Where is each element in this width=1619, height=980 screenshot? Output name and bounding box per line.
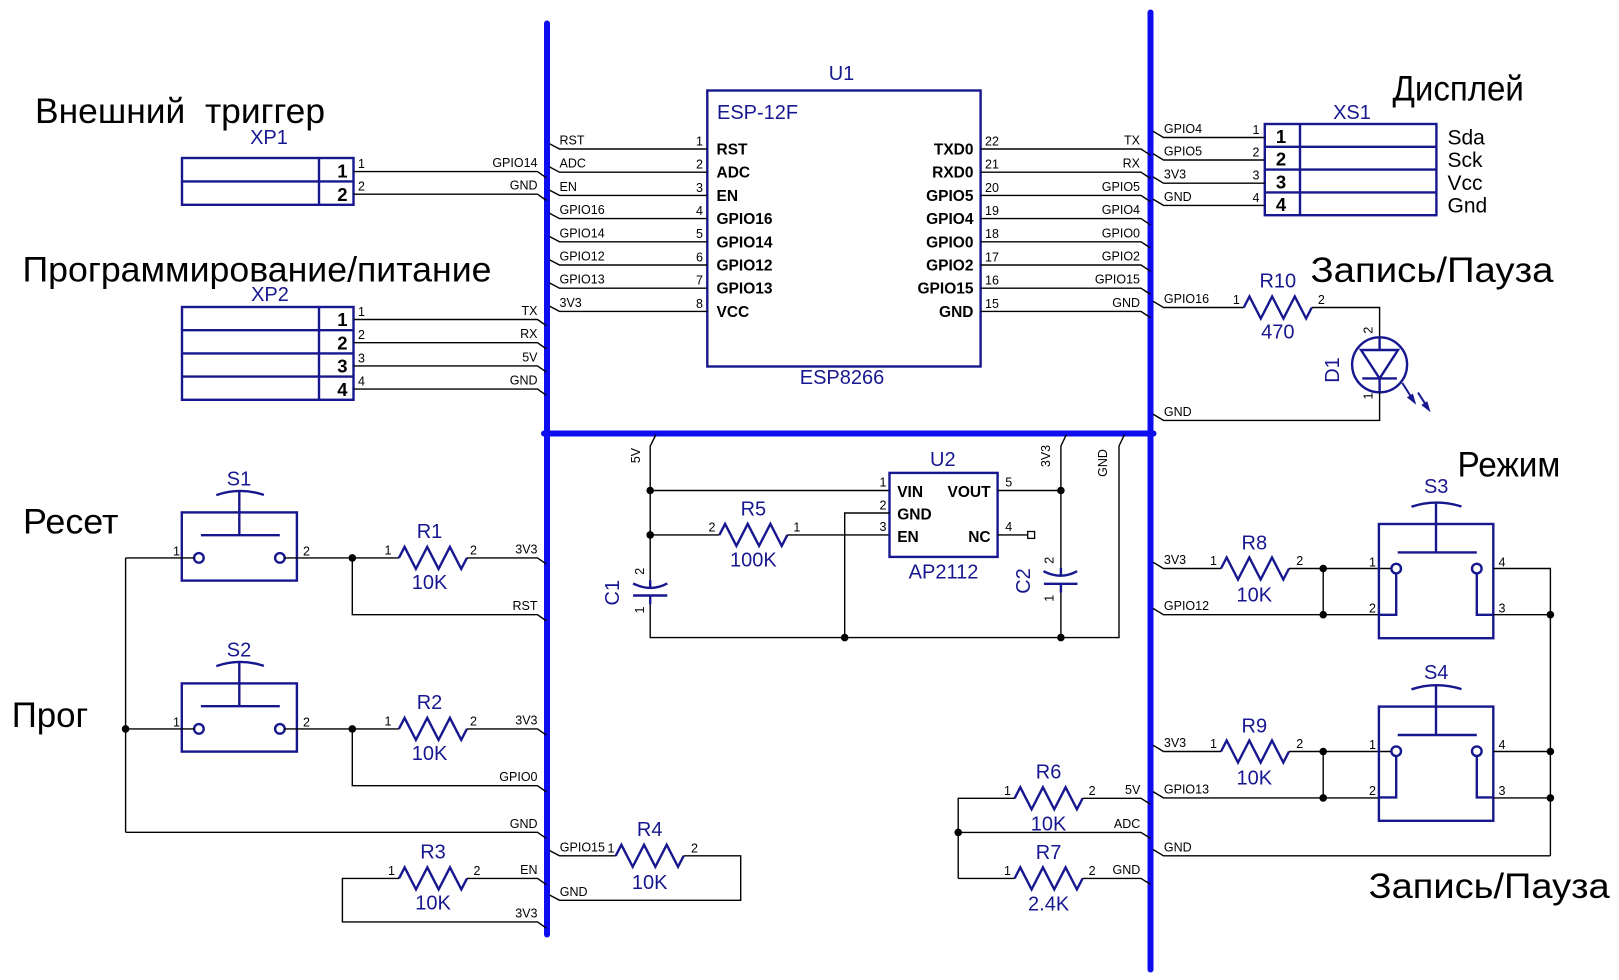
svg-text:S4: S4	[1424, 662, 1448, 684]
svg-text:10K: 10K	[632, 872, 668, 894]
svg-text:GPIO2: GPIO2	[1102, 250, 1140, 264]
wire C2 pin1 to bottom ground wire	[1060, 593, 1062, 639]
svg-text:GPIO4: GPIO4	[926, 211, 974, 228]
svg-text:4: 4	[337, 379, 348, 400]
svg-text:2: 2	[633, 568, 647, 575]
svg-text:7: 7	[696, 274, 703, 288]
svg-text:GPIO4: GPIO4	[1164, 122, 1202, 136]
svg-text:GPIO16: GPIO16	[560, 203, 605, 217]
svg-text:GPIO13: GPIO13	[1164, 782, 1209, 796]
svg-text:3V3: 3V3	[1164, 736, 1186, 750]
wire U1 pin 6 (GPIO12) from left bus, net GPIO12	[550, 250, 773, 275]
svg-text:GPIO15: GPIO15	[1095, 273, 1140, 287]
svg-text:2: 2	[696, 158, 703, 172]
svg-text:1: 1	[879, 475, 886, 489]
wire R3 pin2 to bus (net EN)	[467, 863, 547, 885]
svg-text:GND: GND	[1096, 449, 1110, 477]
wire S2 pin2 to R2	[284, 728, 399, 730]
svg-text:2: 2	[337, 184, 347, 205]
resistor R7 2.4K	[1004, 842, 1096, 915]
connector XP2	[182, 284, 354, 400]
svg-text:RST: RST	[717, 142, 749, 159]
wire XS1 pin4 from right bus, net GND (Gnd)	[1153, 190, 1487, 217]
svg-text:GPIO5: GPIO5	[1164, 145, 1202, 159]
svg-text:EN: EN	[520, 863, 537, 877]
svg-text:2: 2	[303, 716, 310, 730]
wire R7 pin2 to bus (net GND)	[1083, 863, 1151, 885]
svg-text:1: 1	[385, 714, 392, 728]
svg-text:GPIO16: GPIO16	[1164, 292, 1209, 306]
svg-text:ADC: ADC	[560, 157, 586, 171]
svg-text:TX: TX	[522, 304, 539, 318]
svg-text:GPIO14: GPIO14	[560, 226, 605, 240]
svg-text:2: 2	[1042, 557, 1056, 564]
svg-text:19: 19	[985, 204, 999, 218]
wire U1 pin 20 (GPIO5) to right bus, net GPIO5	[926, 180, 1150, 205]
svg-text:AP2112: AP2112	[909, 562, 979, 584]
svg-text:10K: 10K	[412, 572, 448, 594]
svg-text:1: 1	[1369, 555, 1376, 569]
svg-text:2.4K: 2.4K	[1028, 894, 1070, 916]
wire R7 pin1 stub	[958, 877, 1014, 879]
svg-text:GPIO2: GPIO2	[926, 258, 973, 275]
svg-text:Ресет: Ресет	[23, 502, 119, 541]
svg-text:2: 2	[1318, 293, 1325, 307]
svg-text:10K: 10K	[1237, 585, 1273, 607]
svg-text:VIN: VIN	[897, 484, 923, 501]
svg-text:EN: EN	[717, 188, 739, 205]
svg-text:4: 4	[1253, 191, 1260, 205]
wire R8 pin2 to S3 pin1	[1289, 568, 1392, 570]
wire XS1 pin2 from right bus, net GPIO5 (Sck)	[1153, 145, 1483, 172]
svg-text:EN: EN	[560, 180, 577, 194]
svg-text:3: 3	[1499, 602, 1506, 616]
node junction R9.2 rail top	[1319, 748, 1327, 756]
node junction rail/ADC	[954, 829, 962, 837]
node junction VOUT/3V3 rail	[1057, 487, 1065, 495]
wire U1 pin 16 (GPIO15) to right bus, net GPIO15	[918, 273, 1151, 298]
svg-text:3V3: 3V3	[1039, 445, 1053, 467]
svg-text:Прог: Прог	[12, 696, 89, 735]
svg-text:GPIO0: GPIO0	[499, 770, 537, 784]
wire GPIO13 from right bus to S4 pin2	[1153, 782, 1379, 798]
svg-text:XP2: XP2	[251, 284, 289, 306]
svg-text:5: 5	[696, 227, 703, 241]
wire GPIO0 from junction to bus	[352, 729, 546, 792]
svg-text:R8: R8	[1242, 533, 1268, 555]
svg-text:3V3: 3V3	[515, 906, 537, 920]
svg-text:Sda: Sda	[1448, 126, 1486, 149]
svg-text:GPIO15: GPIO15	[918, 281, 974, 298]
svg-text:GND: GND	[939, 304, 973, 321]
svg-text:D1: D1	[1322, 357, 1344, 383]
wire C1 pin1 down to bottom ground wire	[650, 446, 1119, 638]
svg-text:GND: GND	[1164, 190, 1192, 204]
svg-text:S2: S2	[227, 640, 251, 662]
wire GND rail entry from horizontal bus	[1096, 435, 1125, 477]
wire R5 row left stub	[650, 534, 719, 536]
node junction left rail / S2 pin1	[122, 725, 130, 733]
svg-text:1: 1	[1362, 392, 1376, 399]
svg-text:GND: GND	[897, 507, 931, 524]
svg-text:U2: U2	[930, 449, 956, 471]
svg-text:1: 1	[1042, 595, 1056, 602]
wire S3 pin3 to right rail	[1493, 614, 1550, 616]
svg-text:RST: RST	[560, 134, 585, 148]
resistor R6 10K	[1004, 761, 1096, 835]
svg-text:R5: R5	[741, 498, 767, 520]
svg-text:3: 3	[337, 356, 347, 377]
wire R10 pin2 to D1 anode	[1312, 308, 1380, 338]
svg-text:2: 2	[337, 332, 347, 353]
node junction U2 GND / bottom wire	[841, 634, 849, 642]
svg-text:R10: R10	[1259, 271, 1296, 293]
wire GND rail to bus	[126, 817, 547, 839]
svg-text:Запись/Пауза: Запись/Пауза	[1311, 251, 1555, 290]
wire R5 pin1 to U2 EN	[787, 534, 889, 536]
node junction GPIO12 rail bottom	[1319, 611, 1327, 619]
svg-text:10K: 10K	[1237, 768, 1273, 790]
svg-text:22: 22	[985, 134, 999, 148]
wire U1 pin 4 (GPIO16) from left bus, net GPIO16	[550, 203, 773, 228]
svg-text:470: 470	[1261, 322, 1294, 344]
svg-text:XP1: XP1	[250, 127, 288, 149]
svg-text:3: 3	[696, 181, 703, 195]
svg-text:GPIO5: GPIO5	[1102, 180, 1140, 194]
svg-text:C2: C2	[1013, 568, 1035, 594]
node junction S4 pin4 / rail	[1547, 748, 1555, 756]
svg-text:5V: 5V	[1125, 783, 1141, 797]
svg-text:1: 1	[337, 160, 347, 181]
svg-text:2: 2	[1296, 554, 1303, 568]
connector XS1 (display header)	[1265, 102, 1437, 215]
wire XP1 pin2 to bus (net GND)	[354, 179, 547, 201]
svg-text:GPIO14: GPIO14	[492, 156, 537, 170]
wire U1 pin 5 (GPIO14) from left bus, net GPIO14	[550, 226, 773, 251]
svg-text:4: 4	[1499, 555, 1506, 569]
svg-text:XS1: XS1	[1333, 102, 1371, 124]
wire U1 pin 3 (EN) from left bus, net EN	[550, 180, 739, 205]
svg-text:2: 2	[691, 841, 698, 855]
svg-text:3: 3	[1499, 784, 1506, 798]
svg-text:6: 6	[696, 250, 703, 264]
wire S1 pin1 stub	[126, 557, 195, 559]
svg-text:GND: GND	[1164, 840, 1192, 854]
svg-text:GPIO12: GPIO12	[560, 250, 605, 264]
resistor R9 10K	[1221, 716, 1303, 790]
wire vertical link R9.2 to GPIO13	[1322, 752, 1324, 798]
svg-text:2: 2	[358, 180, 365, 194]
node junction 5V/VIN	[646, 487, 654, 495]
svg-text:EN: EN	[897, 529, 919, 546]
svg-text:Vcc: Vcc	[1448, 172, 1483, 195]
svg-text:RX: RX	[520, 327, 538, 341]
svg-text:5V: 5V	[522, 350, 538, 364]
LED D1	[1322, 327, 1431, 413]
wire U1 pin 15 (GND) to right bus, net GND	[939, 296, 1150, 321]
wire R6 pin1 left rail	[958, 798, 1014, 878]
svg-text:3V3: 3V3	[1164, 553, 1186, 567]
svg-text:2: 2	[1369, 784, 1376, 798]
node junction R8.2 rail top	[1319, 565, 1327, 573]
wire R9 pin2 to S4 pin1	[1289, 751, 1392, 753]
svg-text:3V3: 3V3	[515, 542, 537, 556]
svg-text:21: 21	[985, 158, 999, 172]
wire XP1 pin1 to bus (net GPIO14)	[354, 156, 547, 178]
svg-text:1: 1	[1210, 554, 1217, 568]
svg-text:10K: 10K	[415, 892, 451, 914]
bus: right vertical power/signal bus	[1148, 13, 1154, 970]
svg-text:2: 2	[474, 864, 481, 878]
wire S1 pin2 to R1	[284, 557, 399, 559]
svg-text:3: 3	[358, 351, 365, 365]
svg-text:20: 20	[985, 181, 999, 195]
wire D1 cathode to bus (net GND)	[1153, 392, 1380, 420]
svg-text:1: 1	[1004, 864, 1011, 878]
svg-text:GPIO4: GPIO4	[1102, 203, 1140, 217]
svg-text:2: 2	[879, 498, 886, 512]
svg-text:2: 2	[708, 520, 715, 534]
svg-text:2: 2	[470, 543, 477, 557]
svg-text:R6: R6	[1036, 761, 1062, 783]
svg-text:1: 1	[358, 305, 365, 319]
wire R4 pin2 loop to GND	[550, 856, 741, 901]
svg-text:1: 1	[385, 543, 392, 557]
svg-text:R7: R7	[1036, 842, 1062, 864]
wire U1 pin 22 (TXD0) to right bus, net TX	[934, 134, 1151, 159]
svg-text:3V3: 3V3	[560, 296, 582, 310]
svg-text:R1: R1	[417, 521, 443, 543]
wire GPIO15 from left bus to R4	[550, 840, 616, 856]
wire 5V rail from horizontal bus	[629, 435, 656, 584]
wire XP2 pin2 to bus (net RX)	[354, 327, 547, 349]
svg-text:GND: GND	[510, 179, 538, 193]
wire VOUT to 3V3 rail	[998, 490, 1061, 492]
wire S4 pin4 stub to rail	[1493, 751, 1550, 753]
wire U1 pin 8 (VCC) from left bus, net 3V3	[550, 296, 750, 321]
svg-text:GPIO13: GPIO13	[717, 281, 773, 298]
wire XS1 pin1 from right bus, net GPIO4 (Sda)	[1153, 122, 1485, 149]
wire XP2 pin4 to bus (net GND)	[354, 374, 547, 396]
svg-text:U1: U1	[829, 63, 855, 85]
wire XP2 pin3 to bus (net 5V)	[354, 350, 547, 372]
svg-text:GND: GND	[560, 885, 588, 899]
svg-text:2: 2	[1253, 146, 1260, 160]
svg-text:2: 2	[358, 328, 365, 342]
wire S3 pin4 to right rail	[1493, 569, 1550, 856]
svg-text:ADC: ADC	[717, 165, 751, 182]
wire left rail S1.1 to GND row	[125, 558, 127, 832]
svg-text:GPIO14: GPIO14	[717, 234, 773, 251]
svg-text:1: 1	[793, 520, 800, 534]
svg-text:S3: S3	[1424, 476, 1448, 498]
svg-text:15: 15	[985, 297, 999, 311]
svg-text:R3: R3	[420, 841, 446, 863]
svg-text:TX: TX	[1124, 134, 1141, 148]
wire 3V3 from right bus to R8	[1153, 553, 1221, 569]
pushbutton S4	[1369, 662, 1505, 821]
svg-text:1: 1	[1004, 784, 1011, 798]
svg-text:Режим: Режим	[1458, 446, 1561, 485]
wire S2 pin1 stub	[126, 728, 195, 730]
node junction C2/bottom wire	[1057, 634, 1065, 642]
svg-text:1: 1	[1276, 126, 1286, 147]
node junction 5V/R5.2	[646, 531, 654, 539]
svg-text:16: 16	[985, 274, 999, 288]
svg-text:R4: R4	[637, 819, 663, 841]
wire U2 GND pin down to ground rail	[845, 513, 890, 638]
wire XS1 pin3 from right bus, net 3V3 (Vcc)	[1153, 168, 1483, 195]
svg-text:GPIO15: GPIO15	[560, 840, 605, 854]
svg-text:3V3: 3V3	[1164, 168, 1186, 182]
svg-text:GPIO13: GPIO13	[560, 273, 605, 287]
svg-text:GPIO0: GPIO0	[926, 234, 973, 251]
svg-text:R2: R2	[417, 692, 443, 714]
svg-text:2: 2	[470, 714, 477, 728]
svg-text:RXD0: RXD0	[932, 165, 973, 182]
wire U1 pin 2 (ADC) from left bus, net ADC	[550, 157, 751, 182]
capacitor C1	[602, 568, 667, 614]
svg-text:1: 1	[696, 134, 703, 148]
wire U1 pin 18 (GPIO0) to right bus, net GPIO0	[926, 226, 1150, 251]
svg-text:GND: GND	[1113, 863, 1141, 877]
wire R6 pin2 to bus (net 5V)	[1083, 783, 1151, 805]
resistor R10 470	[1244, 271, 1325, 344]
resistor R5 100K	[708, 498, 800, 571]
wire R2 pin2 to bus (net 3V3)	[467, 713, 547, 735]
svg-text:Внешний триггер: Внешний триггер	[35, 92, 325, 131]
svg-text:2: 2	[1369, 602, 1376, 616]
wire GND row to right bus	[1153, 840, 1550, 856]
wire GPIO16 from right bus to R10	[1153, 292, 1244, 308]
svg-text:2: 2	[1089, 864, 1096, 878]
wire U1 pin 19 (GPIO4) to right bus, net GPIO4	[926, 203, 1150, 228]
svg-text:4: 4	[358, 375, 365, 389]
node junction S4 pin3 / rail	[1547, 794, 1555, 802]
svg-text:S1: S1	[227, 469, 251, 491]
wire U1 pin 7 (GPIO13) from left bus, net GPIO13	[550, 273, 773, 298]
pushbutton S1	[173, 469, 310, 581]
svg-text:GND: GND	[510, 817, 538, 831]
svg-text:GPIO5: GPIO5	[926, 188, 974, 205]
resistor R3 10K	[388, 841, 480, 914]
svg-text:1: 1	[1210, 737, 1217, 751]
svg-text:10K: 10K	[412, 743, 448, 765]
wire GPIO12 from right bus to S3 pin2	[1153, 599, 1379, 615]
svg-text:3V3: 3V3	[515, 713, 537, 727]
svg-text:GPIO16: GPIO16	[717, 211, 773, 228]
svg-text:ADC: ADC	[1114, 817, 1140, 831]
op-amp U1 (ESP-12F module body)	[707, 63, 980, 389]
svg-text:1: 1	[1233, 293, 1240, 307]
svg-text:5V: 5V	[629, 447, 643, 463]
wire R1 pin2 to bus (net 3V3)	[467, 542, 547, 564]
svg-text:GND: GND	[1164, 405, 1192, 419]
svg-text:4: 4	[1499, 738, 1506, 752]
resistor R4 10K	[616, 819, 698, 894]
svg-text:R9: R9	[1242, 716, 1268, 738]
svg-text:1: 1	[1369, 738, 1376, 752]
wire vertical link R8.2 to GPIO12	[1322, 569, 1324, 615]
svg-text:18: 18	[985, 227, 999, 241]
resistor R8 10K	[1221, 533, 1303, 607]
svg-text:5: 5	[1005, 475, 1012, 489]
svg-text:RST: RST	[513, 599, 538, 613]
svg-text:C1: C1	[602, 580, 624, 606]
svg-text:1: 1	[173, 545, 180, 559]
svg-text:ESP8266: ESP8266	[800, 367, 885, 389]
wire VIN row	[650, 490, 889, 492]
svg-text:1: 1	[388, 864, 395, 878]
svg-text:Gnd: Gnd	[1448, 194, 1488, 217]
svg-text:ESP-12F: ESP-12F	[717, 102, 798, 124]
bus: horizontal bus linking left and right buses	[544, 431, 1154, 437]
svg-text:1: 1	[173, 716, 180, 730]
resistor R1 10K	[385, 521, 477, 594]
wire 3V3 from right bus to R9	[1153, 736, 1221, 752]
pushbutton S3	[1369, 476, 1505, 638]
svg-text:100K: 100K	[730, 549, 777, 571]
svg-text:2: 2	[1362, 327, 1376, 334]
svg-text:3: 3	[1276, 171, 1286, 192]
svg-text:17: 17	[985, 250, 999, 264]
pushbutton S2	[173, 640, 310, 752]
svg-text:4: 4	[1276, 194, 1287, 215]
svg-text:4: 4	[1005, 520, 1012, 534]
svg-text:4: 4	[696, 204, 703, 218]
svg-text:NC: NC	[968, 529, 990, 546]
svg-text:GPIO12: GPIO12	[717, 258, 773, 275]
wire ADC row to bus	[958, 817, 1150, 839]
wire U1 pin 1 (RST) from left bus, net RST	[550, 134, 749, 159]
wire U2 NC pin with no-connect square	[998, 532, 1035, 539]
svg-text:VCC: VCC	[717, 304, 750, 321]
svg-text:VOUT: VOUT	[948, 484, 992, 501]
wire R3 pin1 to 3V3 bus	[342, 878, 546, 928]
svg-text:GND: GND	[1112, 296, 1140, 310]
node junction S2.2/R2.1/GPIO0	[349, 725, 357, 733]
svg-text:GPIO0: GPIO0	[1102, 226, 1140, 240]
svg-text:2: 2	[1276, 149, 1286, 170]
svg-text:8: 8	[696, 297, 703, 311]
node junction GPIO13 rail bottom	[1319, 794, 1327, 802]
svg-text:1: 1	[608, 841, 615, 855]
svg-text:3: 3	[1253, 169, 1260, 183]
svg-text:Sck: Sck	[1448, 149, 1484, 172]
svg-text:1: 1	[633, 606, 647, 613]
wire S4 pin3 stub to rail	[1493, 797, 1550, 799]
svg-text:GND: GND	[510, 374, 538, 388]
svg-text:2: 2	[303, 545, 310, 559]
svg-text:3: 3	[879, 520, 886, 534]
wire RST from junction to bus	[352, 558, 546, 621]
connector XP1	[182, 127, 354, 205]
wire 3V3 rail from horizontal bus	[1039, 435, 1067, 571]
wire U1 pin 21 (RXD0) to right bus, net RX	[932, 157, 1150, 182]
svg-text:1: 1	[337, 309, 347, 330]
node junction S1.2/R1.1/RST	[349, 554, 357, 562]
wire XP2 pin1 to bus (net TX)	[354, 304, 547, 326]
svg-text:Дисплей: Дисплей	[1393, 70, 1524, 109]
svg-text:RX: RX	[1123, 157, 1141, 171]
svg-text:GPIO12: GPIO12	[1164, 599, 1209, 613]
resistor R2 10K	[385, 692, 477, 765]
svg-text:1: 1	[1253, 123, 1260, 137]
node junction S3 pin3 / rail	[1547, 611, 1555, 619]
wire U1 pin 17 (GPIO2) to right bus, net GPIO2	[926, 250, 1150, 275]
svg-text:TXD0: TXD0	[934, 142, 974, 159]
svg-text:Запись/Пауза: Запись/Пауза	[1369, 867, 1611, 906]
